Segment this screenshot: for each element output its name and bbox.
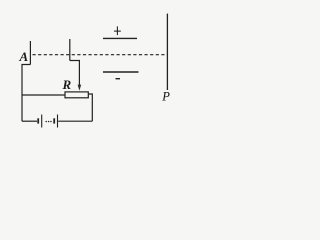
battery cell 2 long plate [57,115,59,128]
battery cell 2 short plate [53,118,55,123]
beam axis dashed line [33,54,168,56]
bottom wire right [58,120,92,122]
R right lead [88,94,92,121]
electrode A [29,41,31,65]
wire from A down left side [22,65,30,122]
resistor R [65,92,88,98]
battery cell 1 short plate [37,118,39,123]
svg-text:A: A [19,49,29,64]
bottom wire left [22,120,37,122]
svg-text:P: P [161,89,170,103]
screen P [166,14,168,90]
battery dots [45,121,51,123]
plus sign [114,26,121,35]
bottom deflecting plate [103,71,139,73]
electrode G (anode) [69,39,71,61]
battery cell 1 long plate [41,115,43,128]
minus sign [116,78,121,80]
top deflecting plate [103,37,137,39]
svg-text:R: R [62,77,72,92]
wiper wire [70,61,80,86]
R left lead [22,94,65,96]
wiper arrowhead [78,85,82,91]
